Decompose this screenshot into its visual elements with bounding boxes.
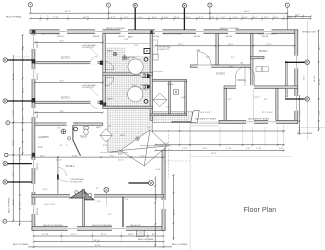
interior closet wall right wing east: [285, 62, 287, 98]
wall: closet right: [185, 81, 187, 114]
svg-text:14'-0": 14'-0": [56, 160, 62, 162]
svg-text:CHASE: CHASE: [167, 83, 174, 86]
laundry diag wall: [73, 125, 81, 155]
svg-text:WALLS FOR FIRE WALL: WALLS FOR FIRE WALL: [43, 224, 63, 227]
wall: right wing H1: [191, 65, 253, 68]
thin bubble leaders: [7, 7, 287, 221]
svg-text:3050 SH: 3050 SH: [153, 36, 160, 38]
left rotated dim texts: [13, 45, 24, 206]
dim ticks bottom: [33, 235, 165, 248]
svg-text:11'-0": 11'-0": [228, 44, 234, 46]
svg-text:3'-0": 3'-0": [243, 17, 248, 19]
svg-text:WALLS & GYP BOARD: WALLS & GYP BOARD: [163, 33, 183, 36]
svg-text:11'-2": 11'-2": [101, 234, 107, 236]
bubble right 2: [305, 97, 309, 101]
svg-text:FACE OF FRAME: FACE OF FRAME: [8, 197, 11, 213]
svg-text:21'-8": 21'-8": [155, 194, 157, 200]
laundry small circle: [67, 137, 70, 140]
svg-text:4'-8": 4'-8": [181, 97, 186, 99]
block bath bottom-left corner: [103, 103, 106, 107]
dim interior right wing a: [155, 45, 216, 47]
svg-text:6'-0": 6'-0": [97, 201, 101, 203]
svg-text:4'-2": 4'-2": [152, 17, 157, 19]
svg-text:W/D: W/D: [229, 66, 234, 68]
svg-text:2'-6": 2'-6": [246, 148, 251, 150]
door gap party wall 1: [90, 61, 98, 64]
svg-text:WALLS FOR FIRE WALL: WALLS FOR FIRE WALL: [92, 224, 112, 227]
svg-text:BATH: BATH: [107, 98, 113, 101]
svg-text:5'-4": 5'-4": [125, 199, 129, 201]
svg-text:15'-4": 15'-4": [174, 209, 176, 215]
dim top segments: [30, 18, 311, 20]
svg-text:12'-4": 12'-4": [266, 44, 272, 46]
svg-text:11'-10": 11'-10": [314, 75, 316, 82]
fire block on partition: [57, 175, 59, 180]
svg-text:3'-0": 3'-0": [274, 17, 279, 19]
svg-text:3050 SH: 3050 SH: [37, 111, 39, 118]
keynote circle on deck: [136, 137, 140, 141]
svg-text:8'-0": 8'-0": [40, 155, 45, 157]
svg-text:6'-2": 6'-2": [13, 171, 15, 176]
svg-text:11'-10": 11'-10": [319, 78, 321, 85]
svg-text:7'-10": 7'-10": [53, 17, 59, 19]
laundry shower drain circle: [61, 129, 66, 134]
dim interior suite1: [35, 42, 103, 44]
stem mid y183: [128, 182, 148, 184]
svg-text:8'-0": 8'-0": [203, 148, 208, 150]
svg-text:7'-0": 7'-0": [147, 127, 152, 129]
dim right inner: [298, 95, 300, 135]
svg-text:3050 SH: 3050 SH: [37, 208, 39, 215]
misc leader notes: [43, 36, 273, 216]
svg-text:5'-0": 5'-0": [132, 85, 137, 87]
svg-text:3050 SH: 3050 SH: [93, 36, 100, 38]
svg-text:9'-2": 9'-2": [22, 45, 24, 50]
svg-text:7'-10": 7'-10": [182, 148, 188, 150]
svg-text:10'-2": 10'-2": [254, 97, 260, 99]
wall: lower wing bottom exterior: [32, 227, 165, 231]
svg-text:FACE OF FRAME: FACE OF FRAME: [138, 238, 154, 241]
svg-text:4'-0": 4'-0": [38, 146, 43, 149]
svg-text:4'-10": 4'-10": [124, 39, 129, 41]
dim bottom 3: [28, 246, 172, 248]
stem left y60: [7, 59, 32, 61]
svg-text:6'-0": 6'-0": [75, 123, 79, 125]
entry door leaf funnel: [191, 110, 199, 122]
hatch: entry deck tile right: [153, 112, 193, 123]
svg-text:8'-2": 8'-2": [60, 111, 65, 113]
svg-text:2'-8": 2'-8": [57, 128, 61, 130]
svg-text:WALLS & GYP BOARD: WALLS & GYP BOARD: [41, 33, 61, 36]
dim left inner: [22, 35, 24, 155]
svg-text:12'-2": 12'-2": [71, 234, 77, 236]
door arc right wing H1: [198, 52, 211, 65]
svg-text:OFFICE: OFFICE: [237, 80, 246, 82]
bubble left 4: [3, 161, 7, 165]
svg-text:FACE OF FRAME: FACE OF FRAME: [172, 243, 188, 246]
wall type labels: [41, 27, 278, 227]
bath interior dim: [105, 43, 150, 45]
wall post symbols on bath right wall: [147, 74, 150, 78]
grid line right vertical: [306, 20, 308, 140]
ADA turning circle upper bath: [128, 59, 143, 74]
wall: right wing V1: [216, 34, 219, 65]
bubble left 1: [3, 58, 7, 62]
bubble E top: [208, 3, 212, 7]
svg-text:FACE OF FRAME: FACE OF FRAME: [13, 243, 29, 246]
svg-text:8'-2": 8'-2": [60, 41, 65, 43]
wall: top exterior: [30, 30, 298, 231]
wall: lower wing vert 1: [83, 189, 85, 226]
wall: laundry top: [35, 123, 103, 126]
svg-text:9'-0": 9'-0": [20, 201, 22, 206]
water heater box: [174, 90, 179, 94]
deck bottom wall: [172, 121, 192, 123]
entry diamond A: [111, 130, 168, 166]
wall: closet bottom: [150, 114, 186, 116]
door gap in right wing H1: [198, 64, 212, 68]
bubble left 3: [6, 121, 10, 125]
wall: bathroom mid: [103, 73, 153, 75]
wall: closet mid: [169, 81, 171, 114]
door gap laundry: [67, 122, 74, 126]
svg-text:LAUNDRY: LAUNDRY: [38, 136, 49, 139]
dim interior right wing b: [218, 45, 294, 47]
svg-text:4'-0": 4'-0": [296, 15, 301, 17]
svg-text:SUITE F: SUITE F: [259, 51, 268, 53]
wall: suite party wall 2: [35, 101, 103, 103]
svg-text:4'-0": 4'-0": [138, 17, 143, 19]
wall: right wing bottom exterior: [219, 120, 298, 123]
dim below right wing 1: [152, 130, 285, 132]
bubble mid 1: [149, 181, 154, 186]
svg-text:17'-10": 17'-10": [42, 234, 49, 236]
svg-text:TOILET: TOILET: [80, 137, 89, 139]
wall: left exterior: [32, 30, 35, 231]
svg-text:2868: 2868: [196, 50, 200, 52]
svg-text:WALLS ARE GYP BOARD: WALLS ARE GYP BOARD: [195, 117, 217, 120]
window size labels under top wall: [57, 36, 269, 38]
svg-text:4'-6": 4'-6": [111, 17, 116, 19]
svg-text:3050 SH: 3050 SH: [37, 163, 39, 170]
svg-text:3050 SH: 3050 SH: [226, 36, 233, 38]
svg-text:11'-2": 11'-2": [319, 44, 321, 50]
floor drain circles upper bath: [113, 52, 126, 59]
stem right y62.3: [285, 61, 305, 63]
svg-text:UL U305: UL U305: [122, 59, 129, 61]
svg-text:4'-4": 4'-4": [20, 155, 22, 160]
svg-text:4'-2": 4'-2": [124, 17, 129, 19]
svg-text:2'-6": 2'-6": [166, 107, 171, 109]
toilet room toilet: [84, 127, 89, 135]
closet shelf line: [153, 71, 163, 73]
partition door arc: [58, 168, 67, 177]
wall: right exterior: [295, 30, 298, 124]
svg-text:12'-2" x 10'-0": 12'-2" x 10'-0": [262, 112, 273, 114]
svg-text:9'-6": 9'-6": [304, 75, 306, 80]
wall: lower wing partition: [57, 157, 59, 195]
svg-text:41'-0": 41'-0": [94, 240, 100, 242]
chimney stub at bottom: [137, 230, 145, 236]
block top of bath right wall: [150, 30, 153, 34]
svg-text:4'-0": 4'-0": [199, 17, 204, 19]
stem left y182: [8, 181, 32, 183]
dim interior lower right v2: [173, 175, 175, 240]
svg-text:BATH: BATH: [128, 36, 133, 39]
svg-text:47'-0": 47'-0": [211, 153, 217, 155]
svg-text:13'-10": 13'-10": [13, 73, 15, 80]
svg-text:W: W: [60, 145, 62, 147]
stem right y99: [285, 98, 305, 100]
lav ring upper bath: [144, 58, 148, 62]
svg-text:9'-6": 9'-6": [206, 57, 211, 59]
bubble left 6: [3, 219, 7, 223]
wall: closet top: [153, 79, 187, 81]
bubble mid 2: [104, 187, 109, 192]
window labels left wall rotated: [37, 41, 39, 215]
wall: lower wing right exterior: [162, 145, 165, 230]
bubble left 3b: [5, 153, 8, 156]
grid stems thick: [7, 8, 304, 183]
entry diamond B: [100, 129, 112, 142]
svg-text:16'-0" x 10'-2": 16'-0" x 10'-2": [200, 112, 211, 114]
window gap lower right wall: [162, 200, 166, 209]
lav ring lower bath: [144, 100, 148, 104]
svg-text:11'-4": 11'-4": [22, 87, 24, 93]
svg-text:6'-8": 6'-8": [319, 110, 321, 115]
wall: bathroom bottom: [103, 106, 153, 109]
svg-text:8'-2": 8'-2": [60, 81, 65, 83]
svg-text:UL U305 (TYP): UL U305 (TYP): [82, 47, 95, 49]
svg-text:3050 SH: 3050 SH: [37, 41, 39, 48]
svg-text:7'-2": 7'-2": [300, 110, 302, 115]
W/D boxes right wing: [256, 67, 262, 72]
svg-text:7'-10": 7'-10": [226, 148, 232, 150]
svg-text:16'-2": 16'-2": [178, 44, 184, 46]
svg-text:7'-4": 7'-4": [13, 110, 15, 115]
wall: bathroom block left: [103, 34, 106, 109]
svg-text:3'-0": 3'-0": [175, 17, 180, 19]
svg-text:5'-8": 5'-8": [103, 145, 108, 147]
door gap corridor: [70, 194, 94, 198]
wall: lower wing vert 2: [122, 197, 123, 226]
bubble left 5: [3, 180, 7, 184]
bubble B top: [107, 3, 111, 7]
dim top right stub: [287, 15, 311, 17]
svg-text:Floor Plan: Floor Plan: [244, 205, 277, 214]
svg-text:3'-2": 3'-2": [253, 17, 258, 19]
bubble right 1: [305, 60, 309, 64]
wall: lower wing corridor: [32, 194, 164, 197]
hatch: bathroom tile floor: [105, 56, 150, 106]
svg-text:9'-0": 9'-0": [231, 57, 235, 59]
dim left lower: [19, 148, 21, 226]
door gap party wall 2: [90, 101, 98, 104]
svg-text:3050 SH: 3050 SH: [37, 73, 39, 80]
svg-text:7'-6": 7'-6": [221, 17, 226, 19]
entry door triangles: [70, 190, 83, 198]
fixture box with dot upper bath: [144, 49, 150, 54]
dim ticks top row: [29, 12, 312, 19]
svg-text:6'-4": 6'-4": [156, 169, 161, 171]
svg-text:2'-6": 2'-6": [288, 17, 293, 19]
wall: bathroom block right: [150, 34, 153, 121]
window gaps bottom wall: [68, 226, 126, 231]
ADA turning circle lower bath: [128, 87, 143, 102]
dashed roof line: [165, 160, 190, 162]
svg-text:7'-10": 7'-10": [256, 148, 262, 150]
svg-text:5'-0": 5'-0": [134, 45, 139, 47]
dim interior lower right v1: [154, 177, 156, 248]
svg-text:5'-1": 5'-1": [228, 99, 232, 101]
entry diamond C (closet shower): [153, 93, 167, 106]
stem grid C top: [134, 8, 136, 30]
bottom dim texts: [42, 234, 157, 247]
right rotated dim texts: [155, 44, 320, 215]
dim interior lower wing: [32, 156, 164, 158]
dim ticks below right wing: [154, 130, 284, 151]
svg-text:SETBACK LINE: SETBACK LINE: [302, 31, 316, 34]
wall: right wing V2: [251, 34, 254, 86]
porch edge lines: [191, 122, 220, 126]
svg-text:WALLS & GYP BOARD: WALLS & GYP BOARD: [106, 27, 126, 30]
deck base line: [140, 145, 171, 147]
dim below right wing 3: [155, 149, 284, 151]
stem grid E top: [183, 8, 185, 30]
svg-text:4'-6": 4'-6": [233, 17, 238, 19]
svg-text:2'-6": 2'-6": [279, 148, 284, 150]
bubble left 2: [3, 99, 7, 103]
svg-text:3'-6": 3'-6": [164, 17, 169, 19]
interior walls: [32, 34, 298, 227]
svg-text:3'-2": 3'-2": [264, 17, 269, 19]
dim interior suite2: [35, 82, 103, 84]
svg-text:3050 SH: 3050 SH: [118, 36, 125, 38]
svg-text:7'-10": 7'-10": [163, 143, 169, 145]
wall: right wing H2: [224, 86, 298, 89]
bath door arc 2: [106, 78, 114, 86]
svg-text:6'-3": 6'-3": [264, 99, 268, 101]
dim below right wing 2: [155, 144, 284, 146]
svg-text:45'-8": 45'-8": [95, 245, 101, 247]
svg-text:UL U305 (TYP): UL U305 (TYP): [82, 87, 95, 89]
svg-text:12'-0" x 13'-0": 12'-0" x 13'-0": [44, 204, 55, 206]
fire wall end blocks upper wing: [32, 59, 36, 63]
dim interior suite3: [35, 112, 103, 114]
svg-text:UL U305 (TYP): UL U305 (TYP): [70, 182, 83, 184]
dim right outer: [318, 30, 320, 131]
kitchen counter suite E: [153, 40, 158, 54]
svg-text:4'-0": 4'-0": [118, 153, 123, 156]
svg-text:BATH: BATH: [107, 50, 113, 53]
dim bottom 1: [34, 235, 164, 237]
svg-text:3050 SH: 3050 SH: [57, 36, 64, 38]
svg-text:10'-8": 10'-8": [13, 139, 15, 145]
short dim line left of deck: [100, 152, 128, 154]
bubble A top: [28, 3, 32, 7]
svg-text:UL U305 (TYP): UL U305 (TYP): [157, 49, 170, 51]
wall: right wing V3: [224, 89, 227, 121]
dashed canopy line: [168, 130, 170, 178]
window gaps right wing bottom wall: [246, 120, 276, 124]
door gap in right wing H2: [236, 85, 254, 89]
svg-text:SUITE E: SUITE E: [216, 73, 225, 75]
dim left outer: [12, 55, 14, 221]
fire block on left wall: [32, 153, 35, 157]
svg-text:9'-2": 9'-2": [110, 155, 115, 157]
svg-text:6'-2": 6'-2": [152, 234, 157, 236]
fire wall notes: [70, 44, 136, 184]
window gaps right wall: [294, 56, 298, 111]
svg-text:WALLS ARE GYP BOARD: WALLS ARE GYP BOARD: [248, 117, 270, 120]
corner block top-left: [32, 30, 35, 34]
bubble F top: [285, 3, 289, 7]
wall: right wing V2 stub: [251, 57, 265, 59]
wall: suite party wall 1: [35, 61, 103, 63]
svg-text:10'-2": 10'-2": [118, 160, 124, 162]
wall: right wing V4: [276, 89, 278, 121]
bubble C top: [133, 3, 137, 7]
door arc right wing H2: [236, 67, 255, 77]
svg-text:WALLS FOR: WALLS FOR: [130, 224, 141, 227]
svg-text:3050 SH: 3050 SH: [194, 36, 201, 38]
svg-text:10'-6": 10'-6": [128, 234, 134, 236]
svg-text:WALLS & GYP BOARD: WALLS & GYP BOARD: [258, 33, 278, 36]
svg-text:3050 SH: 3050 SH: [262, 36, 269, 38]
party wall door arcs: [90, 56, 98, 108]
interior dim texts: [40, 41, 272, 190]
svg-text:5'-6": 5'-6": [22, 115, 24, 120]
svg-text:13'-6": 13'-6": [43, 189, 48, 191]
toilet upper bath: [140, 73, 147, 77]
bubble D top: [182, 3, 186, 7]
top dim texts: [53, 11, 300, 19]
room labels: [38, 51, 268, 168]
svg-text:FACE OF FRAME: FACE OF FRAME: [6, 16, 22, 19]
leader lines: [59, 47, 129, 206]
dim ticks interior: [31, 42, 296, 247]
svg-text:DECK: DECK: [120, 135, 126, 137]
svg-text:46'-7": 46'-7": [65, 11, 71, 13]
bubble cross ticks: [4, 4, 309, 191]
laundry ring circle: [74, 127, 78, 131]
dim bottom 2: [34, 241, 164, 243]
svg-text:13'-2": 13'-2": [13, 199, 15, 205]
dim ticks right col: [298, 30, 319, 132]
stem left y101: [7, 100, 32, 102]
window gaps left wall: [32, 35, 36, 214]
dim top overall: [30, 12, 287, 14]
svg-text:SUITE A: SUITE A: [66, 165, 75, 168]
dim ticks left col: [12, 34, 23, 225]
faint viewport corner: [190, 124, 291, 250]
svg-text:8'-2": 8'-2": [83, 17, 88, 19]
svg-text:14'-6": 14'-6": [72, 155, 78, 157]
svg-text:9'-0": 9'-0": [108, 214, 112, 216]
right wing lower dim texts: [163, 143, 284, 155]
keynote circle in diamond B: [107, 133, 110, 136]
svg-text:7'-4": 7'-4": [140, 155, 145, 157]
svg-text:44'-0": 44'-0": [244, 11, 250, 13]
window gaps top wall: [60, 29, 272, 34]
svg-text:2'-2": 2'-2": [210, 17, 215, 19]
bath door arc 1: [106, 62, 114, 70]
svg-text:3'-6": 3'-6": [186, 17, 191, 19]
svg-text:WALLS & GYP BOARD: WALLS & GYP BOARD: [220, 27, 240, 30]
svg-text:SUITE C: SUITE C: [61, 98, 70, 100]
svg-text:SUITE D: SUITE D: [61, 58, 70, 60]
hatch: entry deck tile left: [108, 109, 153, 152]
